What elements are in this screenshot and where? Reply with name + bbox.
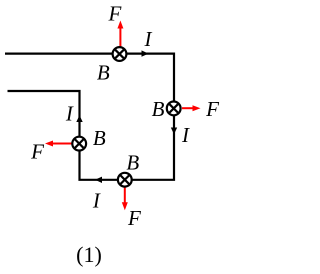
svg-text:(1): (1) [76, 242, 102, 267]
svg-text:B: B [152, 97, 165, 121]
svg-text:B: B [97, 60, 110, 84]
svg-text:I: I [181, 123, 190, 147]
svg-text:I: I [92, 189, 101, 213]
svg-text:B: B [126, 150, 139, 174]
svg-text:B: B [93, 126, 106, 150]
svg-text:I: I [65, 101, 74, 125]
svg-text:F: F [30, 140, 44, 164]
svg-text:F: F [107, 1, 121, 25]
svg-text:F: F [205, 97, 219, 121]
svg-text:F: F [127, 206, 141, 230]
svg-text:I: I [144, 27, 153, 51]
